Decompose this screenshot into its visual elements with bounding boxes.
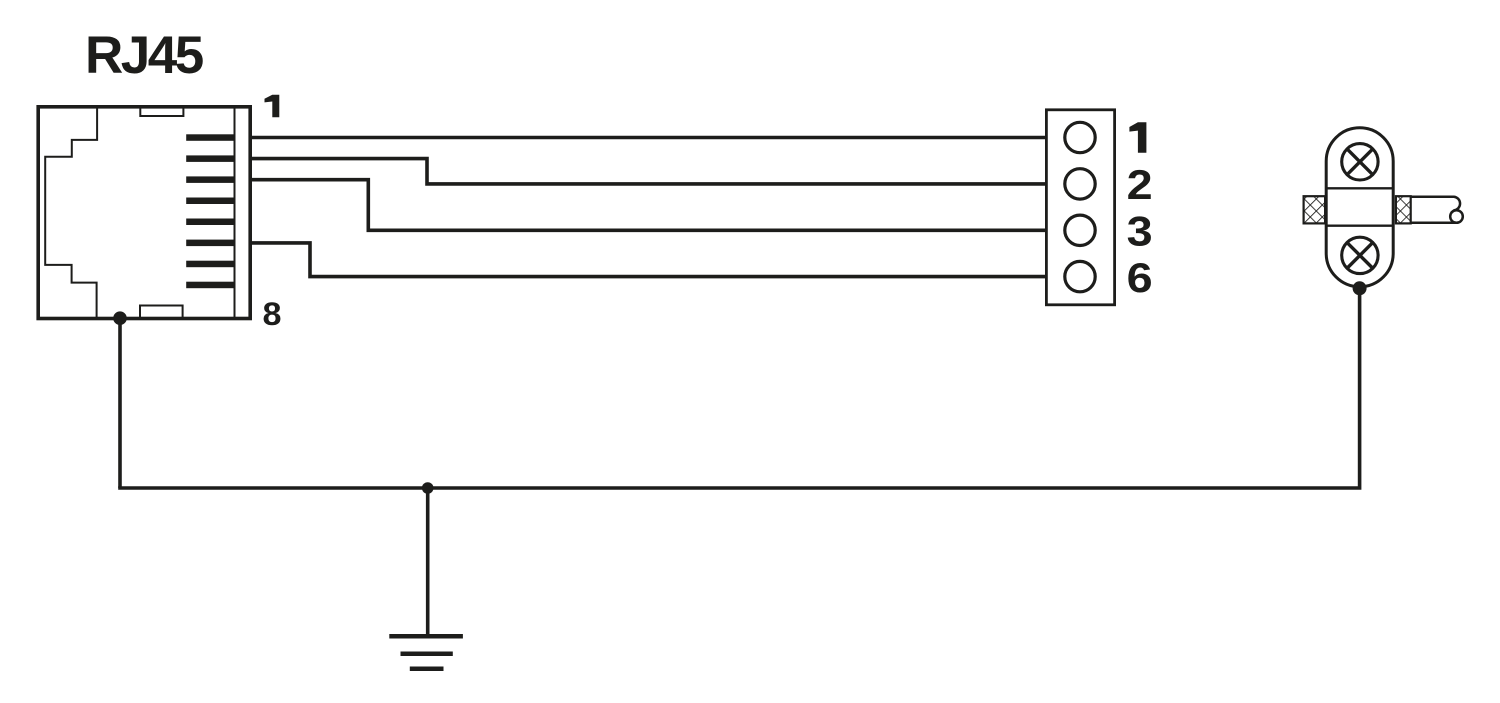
cable cut-end loop (1450, 210, 1463, 223)
connector J1 pin 3 contact bar (186, 176, 234, 183)
cable shield braid right (hatched) (1396, 196, 1411, 223)
ground symbol (389, 636, 463, 669)
wire shield bus horizontal (120, 288, 1360, 488)
connector J1 pin 7 contact bar (186, 261, 234, 268)
terminal block X1 body (1046, 110, 1114, 305)
terminal X1 screw 2 (1065, 169, 1095, 199)
svg-text:8: 8 (263, 296, 282, 332)
connector J1 latch profile (45, 107, 97, 319)
connector J1 pin 1 contact bar (186, 134, 234, 141)
wire RJ45 pin1 to terminal 1 (250, 136, 1045, 140)
terminal X1 screw 1 (1065, 122, 1095, 152)
wire RJ45 pin6 to terminal 6 (250, 243, 1045, 277)
cable clamp saddle bottom line (1326, 225, 1393, 227)
connector J1 top keying notch (140, 107, 183, 116)
cable clamp saddle top line (1326, 187, 1393, 189)
terminal X1 screw 3 (1065, 215, 1095, 245)
connector J1 pin 6 contact bar (186, 240, 234, 247)
svg-text:2: 2 (1127, 161, 1153, 208)
connector J1 pin 4 contact bar (186, 198, 234, 205)
terminal label 1 (1129, 122, 1146, 153)
cable clamp screw top (1342, 144, 1378, 180)
wire ground drop (426, 488, 430, 636)
terminal X1 screw 6 (1065, 261, 1095, 291)
cable shield braid left (hatched) (1304, 196, 1326, 223)
cable clamp body (stadium) (1326, 128, 1393, 287)
connector J1 bottom keying notch (140, 306, 183, 319)
cable sheath bottom line (1411, 221, 1456, 224)
wire RJ45 shield down (118, 319, 122, 489)
cable clamp screw bottom (1342, 237, 1378, 273)
wire RJ45 pin3 to terminal 3 (250, 180, 1045, 231)
connector J1 pin 5 contact bar (186, 219, 234, 226)
cable sheath outline (1411, 197, 1460, 213)
connector J1 RJ45 jack body (38, 107, 250, 319)
connector J1 contact-row separator line (234, 107, 236, 319)
pin label 1 (265, 95, 280, 118)
junction clamp to shield wire (1353, 281, 1367, 295)
svg-text:3: 3 (1127, 208, 1153, 255)
connector J1 pin 8 contact bar (186, 282, 234, 289)
junction ground tap (422, 482, 434, 494)
connector J1 pin 2 contact bar (186, 155, 234, 162)
junction shield tap on RJ45 (113, 311, 127, 325)
wire RJ45 pin2 to terminal 2 (250, 159, 1045, 184)
svg-text:6: 6 (1127, 254, 1153, 301)
svg-text:RJ45: RJ45 (85, 26, 203, 85)
